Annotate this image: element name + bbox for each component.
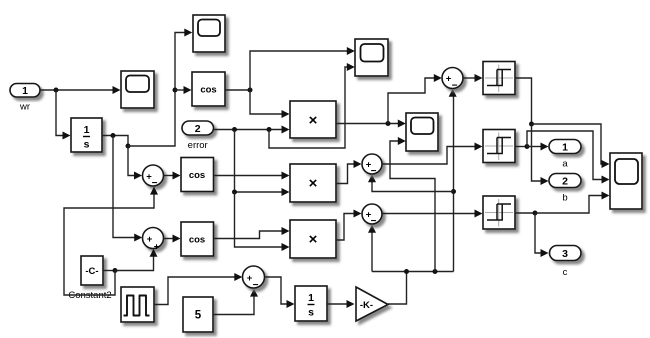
- sum A (+ -): [143, 165, 164, 189]
- wire product2 out to sum2: [336, 160, 362, 184]
- scope Scope: [121, 71, 154, 108]
- node integrator out: [111, 133, 116, 138]
- wire relay2 to outport a: [527, 143, 549, 151]
- wire cos1 to product1 in1: [250, 90, 290, 118]
- node at 234.5,192: [232, 190, 237, 195]
- wire relay1 to outport b: [532, 124, 549, 185]
- wire gain up to bus: [387, 272, 407, 305]
- inport 1 wr: [10, 84, 40, 113]
- wire into cos1: [175, 86, 192, 94]
- wire cos3 to product3 in1: [214, 227, 290, 239]
- svg-text:s: s: [308, 307, 314, 319]
- node relay2 branch: [525, 144, 530, 149]
- wire error line: [214, 126, 290, 134]
- wire up to cos1 and scope1: [128, 29, 192, 147]
- wire relay3 to scope4 in3: [535, 192, 610, 214]
- wire -C- feedback loop to sumA bottom: [64, 187, 158, 295]
- wire product1 out to scope3 in1: [336, 120, 406, 128]
- node branch at 128,146: [126, 144, 131, 149]
- wire wr to scope: [40, 86, 121, 94]
- node error branch 1: [232, 127, 237, 132]
- svg-text:-C-: -C-: [85, 266, 98, 277]
- wire relay3 out: [515, 212, 535, 214]
- node gain junction: [404, 269, 409, 274]
- integrator 1/s: [71, 118, 102, 152]
- product X2: [290, 164, 336, 202]
- svg-text:−: −: [371, 216, 377, 227]
- wire relay3 to outport c: [535, 213, 549, 257]
- svg-text:−: −: [452, 81, 458, 92]
- wire product3 out to sum3: [336, 210, 362, 241]
- sum C (+ -): [243, 266, 265, 291]
- svg-text:cos: cos: [189, 235, 205, 246]
- svg-text:3: 3: [562, 248, 568, 260]
- svg-text:1: 1: [84, 124, 90, 136]
- wire integrator2 to gain: [327, 300, 355, 308]
- constant -C-: [68, 256, 111, 301]
- wire sumC to integrator2: [265, 277, 295, 308]
- scope Scope2: [355, 39, 388, 76]
- svg-text:−: −: [253, 280, 259, 291]
- wire bus to sum3 bottom: [368, 225, 376, 272]
- wire down to sum B: [113, 136, 142, 242]
- product X1: [290, 101, 336, 138]
- svg-text:s: s: [84, 139, 90, 151]
- constant 5: [183, 297, 213, 332]
- wire sum1 to relay1: [463, 74, 483, 82]
- svg-text:−: −: [152, 178, 158, 189]
- scope Scope4: [610, 153, 642, 209]
- wire product1 to sum1: [388, 74, 442, 124]
- wire bus up to scope3 in2: [390, 137, 435, 272]
- wire sum2 to relay2: [382, 143, 483, 165]
- wire error down to product2 in2: [235, 130, 290, 197]
- relay 2: [483, 130, 515, 163]
- cos block 1: [192, 72, 225, 106]
- pulse generator: [121, 287, 154, 322]
- wire sumB to cos3: [164, 235, 181, 243]
- wire cos1 to scope2 in1: [250, 47, 355, 90]
- wire cos2 to product2 in1: [214, 172, 290, 180]
- relay 1: [483, 62, 515, 95]
- outport 2 b: [549, 174, 581, 204]
- wire pulse to sumC: [154, 273, 242, 305]
- svg-text:2: 2: [562, 176, 568, 188]
- svg-text:+: +: [154, 242, 160, 253]
- cos block 3: [181, 222, 214, 256]
- svg-text:×: ×: [309, 112, 318, 129]
- wire relay2 out: [515, 146, 527, 148]
- wire relay1 out: [515, 78, 532, 124]
- node relay3 branch: [533, 211, 538, 216]
- svg-text:a: a: [562, 159, 568, 170]
- node at 175,90: [173, 88, 178, 93]
- sum 2 (+ -): [362, 154, 382, 177]
- wire bottom bus y=271.5: [372, 271, 454, 273]
- outport 3 c: [550, 246, 582, 279]
- svg-text:1: 1: [562, 142, 568, 154]
- wire sumA to cos2: [164, 172, 181, 180]
- wire relay1 to scope4 in1: [532, 124, 610, 168]
- svg-text:wr: wr: [19, 102, 30, 113]
- svg-text:2: 2: [195, 123, 201, 135]
- wire wr to integrator: [56, 90, 71, 140]
- wire sum3 to relay3: [382, 210, 483, 218]
- sum 3 (+ -): [362, 204, 382, 227]
- svg-text:+: +: [147, 234, 153, 245]
- node wr branch: [54, 88, 59, 93]
- svg-text:1: 1: [308, 292, 314, 304]
- cos block 2: [181, 158, 214, 192]
- svg-text:−: −: [371, 166, 377, 177]
- svg-text:×: ×: [309, 175, 318, 192]
- outport 1 a: [549, 140, 581, 170]
- svg-text:5: 5: [195, 310, 202, 322]
- node sum2 feed: [451, 189, 456, 194]
- svg-text:c: c: [563, 267, 568, 278]
- node error branch 2: [267, 127, 272, 132]
- node cos1 branch: [248, 88, 253, 93]
- svg-text:1: 1: [22, 85, 28, 97]
- scope Scope3: [406, 113, 438, 151]
- gain -K-: [356, 287, 388, 321]
- inport 2 error: [182, 121, 214, 151]
- node -C- branch: [113, 268, 118, 273]
- wire bus up to sum1 bottom: [449, 89, 457, 272]
- wire relay2 to scope4 in2: [527, 131, 610, 184]
- svg-text:b: b: [562, 193, 567, 204]
- wire -C- out: [103, 270, 115, 272]
- svg-text:×: ×: [309, 231, 318, 248]
- svg-text:-K-: -K-: [360, 300, 373, 311]
- wire integrator out: [102, 136, 128, 147]
- sum 1 (+ -): [442, 68, 463, 92]
- svg-text:error: error: [188, 140, 208, 151]
- sum B (+ +): [143, 228, 164, 253]
- node bus to scope3: [433, 269, 438, 274]
- wire to sum2 bottom: [368, 174, 454, 191]
- integrator2 1/s: [295, 286, 327, 321]
- wire 5 to sumC bottom: [213, 289, 258, 315]
- product X3: [290, 220, 336, 258]
- wire -C- to sumB bottom: [115, 249, 158, 271]
- node product1 branch: [386, 121, 391, 126]
- scope Scope1: [193, 15, 225, 52]
- node relay1 branch: [529, 122, 534, 127]
- svg-text:cos: cos: [189, 170, 205, 181]
- wire cos1 out: [225, 89, 250, 91]
- svg-text:cos: cos: [200, 85, 216, 96]
- wire to sum A: [128, 146, 142, 180]
- wire error down to product3 in2: [235, 192, 290, 251]
- relay 3: [483, 196, 515, 229]
- wire error to scope2 in2: [269, 63, 355, 148]
